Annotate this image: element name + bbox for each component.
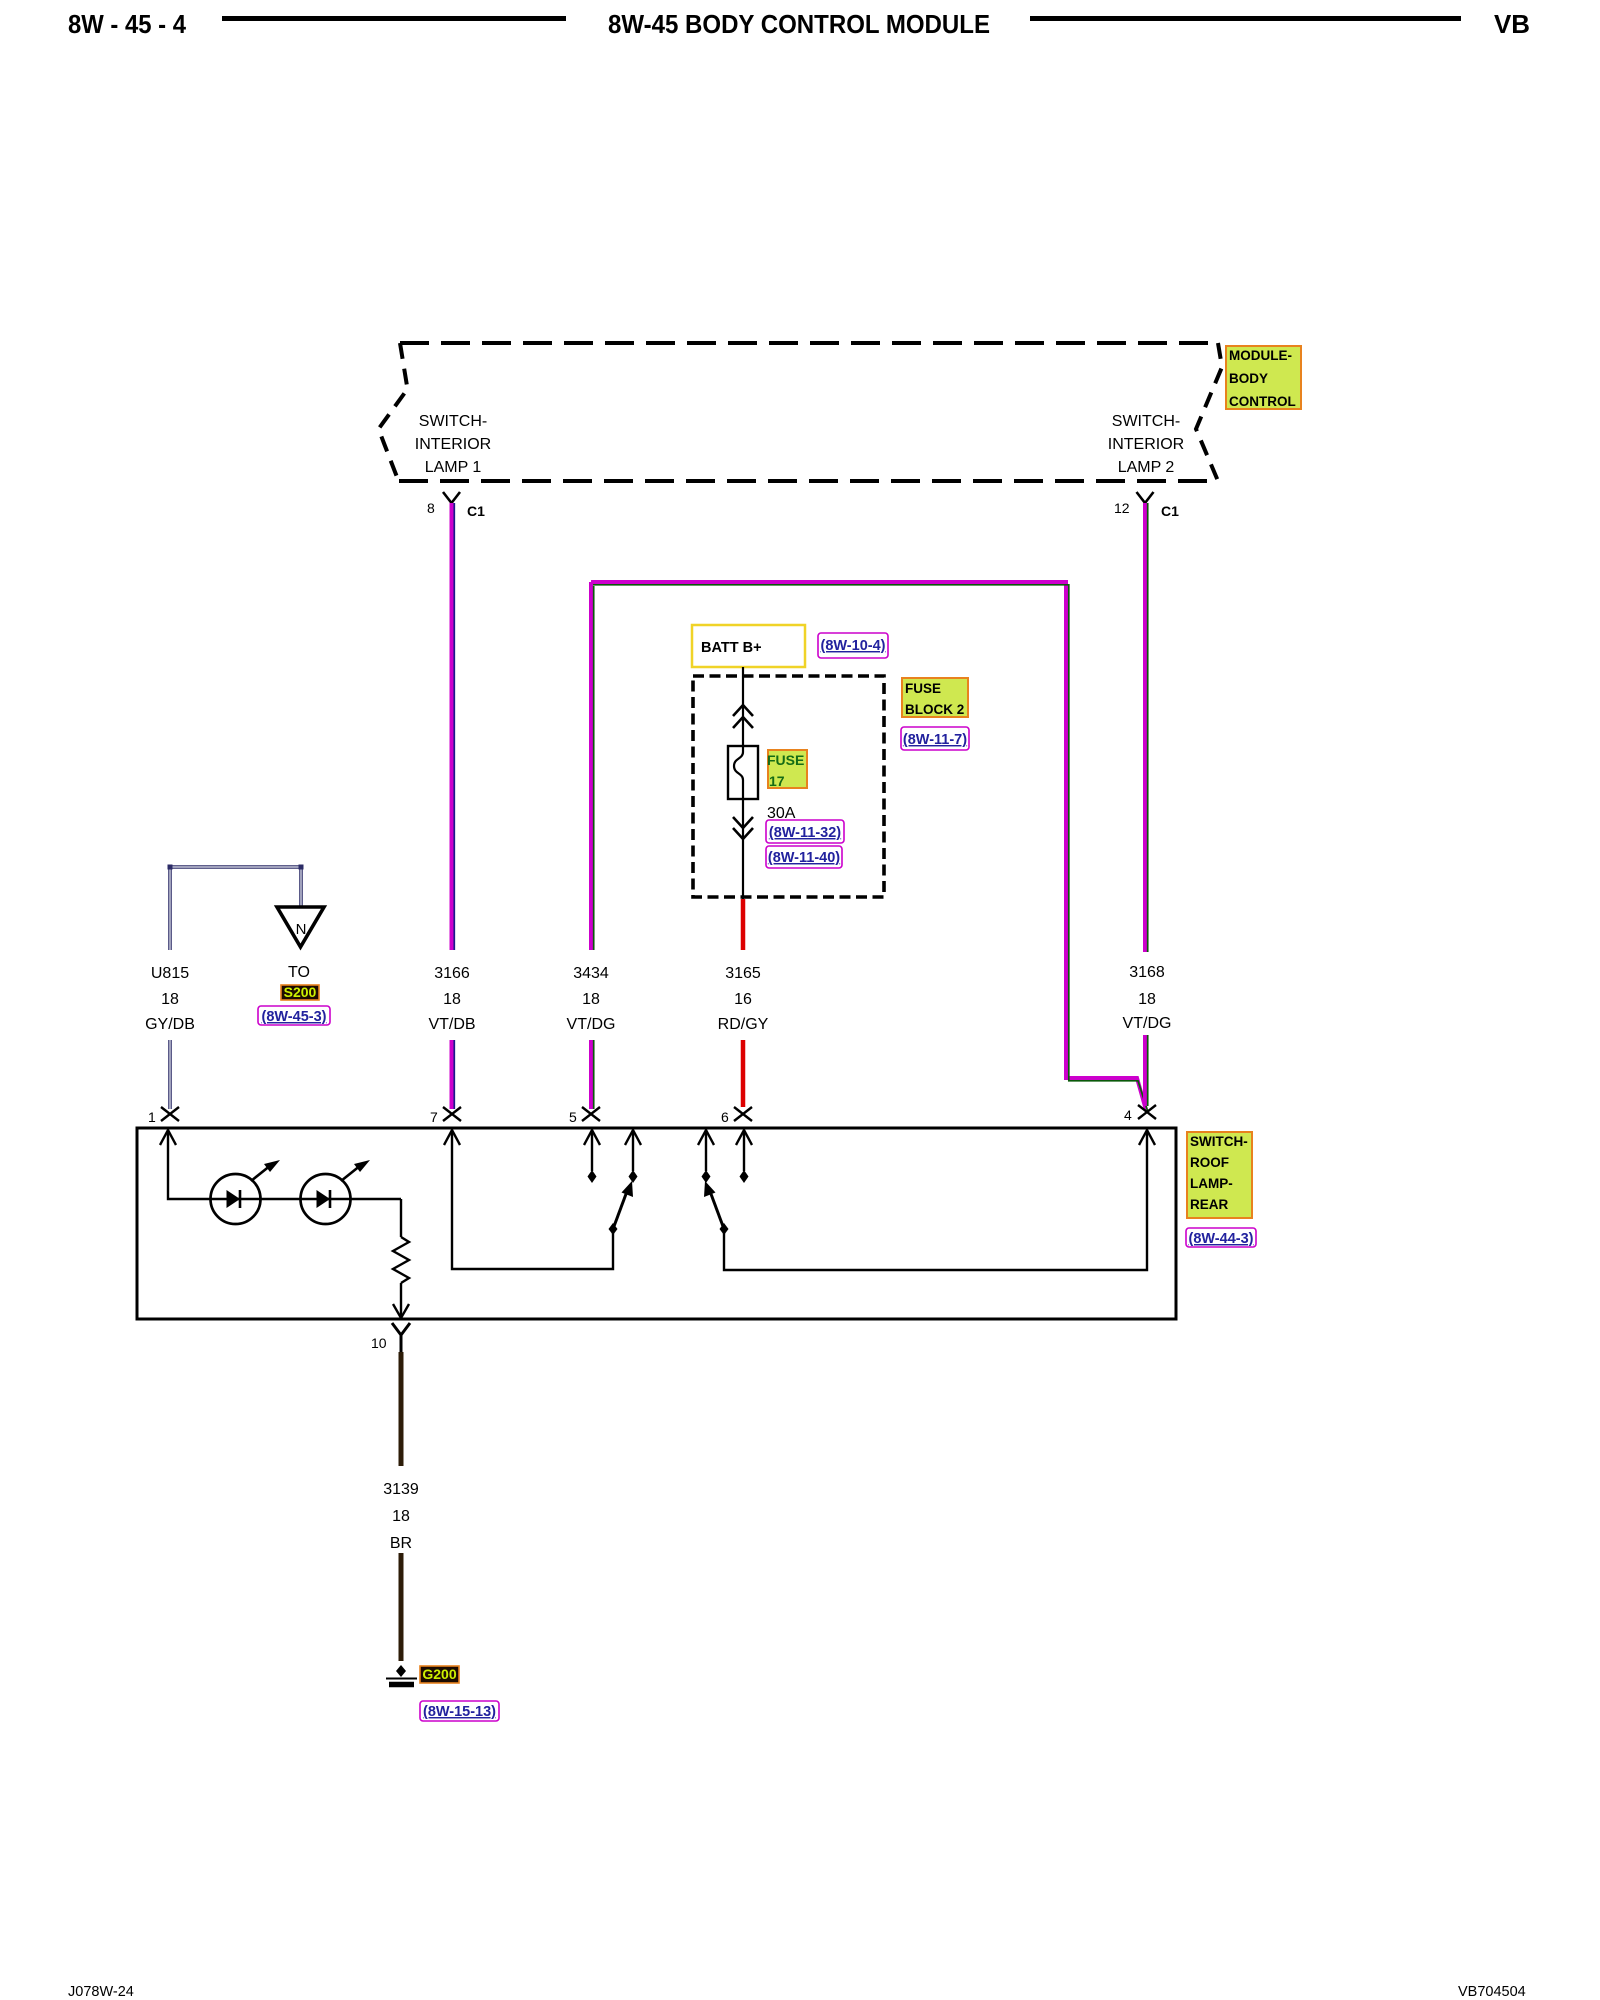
LED D1 <box>211 1174 261 1224</box>
link 8W-45-3 <box>258 1006 330 1025</box>
svg-text:VT/DB: VT/DB <box>428 1016 475 1033</box>
link 8W-11-7 <box>901 727 969 750</box>
svg-text:MODULE-: MODULE- <box>1229 348 1292 363</box>
svg-text:BR: BR <box>390 1535 412 1552</box>
BATT B+ box <box>692 625 805 667</box>
module U1 dashed outline left break <box>379 343 408 481</box>
wire resistor to pin 10 with down arrow <box>400 1283 402 1316</box>
svg-text:18: 18 <box>161 991 179 1008</box>
switch contact stem pin 6 <box>736 1130 752 1145</box>
svg-text:17: 17 <box>769 773 785 789</box>
svg-text:VB: VB <box>1494 9 1530 39</box>
svg-text:TO: TO <box>288 964 310 981</box>
wire 3434 VT/DG upper segment <box>589 582 593 950</box>
svg-text:J078W-24: J078W-24 <box>68 1984 134 2000</box>
svg-text:BATT B+: BATT B+ <box>701 640 762 656</box>
label FUSE BLOCK 2 <box>902 678 968 717</box>
wire 3139 BR lower segment <box>399 1553 404 1661</box>
svg-text:16: 16 <box>734 991 752 1008</box>
svg-text:C1: C1 <box>1161 503 1179 519</box>
svg-text:12: 12 <box>1114 500 1130 516</box>
svg-text:SWITCH-: SWITCH- <box>1112 413 1180 430</box>
svg-text:CONTROL: CONTROL <box>1229 394 1296 409</box>
svg-text:(8W-44-3): (8W-44-3) <box>1189 1231 1254 1247</box>
module U1 body control dashed outline top edge <box>400 341 1218 345</box>
svg-text:(8W-45-3): (8W-45-3) <box>262 1009 327 1025</box>
wire U815 corner junctions <box>168 865 173 870</box>
wire 3168 VT/DG lower segment <box>1143 1035 1147 1106</box>
link 8W-11-40 <box>766 846 842 868</box>
svg-text:VB704504: VB704504 <box>1458 1984 1526 2000</box>
svg-text:1: 1 <box>148 1109 156 1125</box>
svg-text:(8W-15-13): (8W-15-13) <box>423 1704 496 1720</box>
svg-text:3165: 3165 <box>725 965 761 982</box>
svg-text:ROOF: ROOF <box>1190 1155 1229 1170</box>
link 8W-11-32 <box>766 820 844 843</box>
svg-text:(8W-10-4): (8W-10-4) <box>821 638 886 654</box>
svg-text:(8W-11-7): (8W-11-7) <box>903 732 967 748</box>
svg-text:SWITCH-: SWITCH- <box>419 413 487 430</box>
module U1 dashed outline right break <box>1196 343 1222 481</box>
svg-text:8: 8 <box>427 500 435 516</box>
pin 6 connector symbol <box>734 1107 752 1121</box>
internal pin 4 arrow and wire to switch blade 2 <box>1139 1130 1155 1145</box>
svg-text:3434: 3434 <box>573 965 609 982</box>
switch contact stem pin 5 <box>584 1130 600 1145</box>
wire 3166 VT/DB lower segment <box>450 1040 454 1109</box>
svg-text:18: 18 <box>582 991 600 1008</box>
svg-text:BODY: BODY <box>1229 371 1268 386</box>
switch blade 1 <box>609 1223 618 1235</box>
svg-text:REAR: REAR <box>1190 1197 1229 1212</box>
wire 3165 RD/GY upper segment <box>741 899 746 950</box>
svg-text:8W-45 BODY CONTROL MODULE: 8W-45 BODY CONTROL MODULE <box>608 9 990 39</box>
svg-text:INTERIOR: INTERIOR <box>415 436 491 453</box>
wire 3168 VT/DG upper segment <box>1143 503 1147 952</box>
label FUSE 17 <box>768 750 807 788</box>
switch contact stem inner left <box>625 1130 641 1145</box>
ground G200 symbol <box>396 1665 406 1677</box>
connector chevrons below fuse <box>733 817 753 839</box>
svg-text:3139: 3139 <box>383 1481 419 1498</box>
svg-text:GY/DB: GY/DB <box>145 1016 195 1033</box>
wire batt feed into fuse <box>742 667 744 899</box>
link 8W-44-3 <box>1186 1228 1256 1247</box>
link 8W-15-13 <box>420 1701 499 1721</box>
pin 5 connector symbol <box>582 1107 600 1121</box>
svg-text:18: 18 <box>1138 991 1156 1008</box>
connector chevrons above fuse <box>733 705 753 728</box>
pin 4 connector symbol <box>1138 1105 1156 1119</box>
svg-text:10: 10 <box>371 1335 387 1351</box>
svg-text:SWITCH-: SWITCH- <box>1190 1134 1248 1149</box>
svg-text:18: 18 <box>392 1508 410 1525</box>
svg-text:(8W-11-40): (8W-11-40) <box>768 850 840 866</box>
pin 10 connector symbol <box>392 1323 410 1352</box>
svg-text:G200: G200 <box>422 1666 456 1682</box>
internal pin 1 arrow and wire <box>160 1130 176 1145</box>
resistor R1 <box>393 1237 409 1283</box>
svg-text:U815: U815 <box>151 965 189 982</box>
svg-text:RD/GY: RD/GY <box>718 1016 769 1033</box>
svg-text:LAMP 2: LAMP 2 <box>1118 459 1175 476</box>
wire 3165 RD/GY lower segment <box>741 1040 746 1107</box>
wire 3139 BR upper segment <box>399 1352 404 1466</box>
svg-text:(8W-11-32): (8W-11-32) <box>769 825 841 841</box>
pin 7 connector symbol <box>443 1107 461 1121</box>
svg-text:C1: C1 <box>467 503 485 519</box>
connector pin 12 C1 symbol <box>1137 492 1154 503</box>
label MODULE-BODY CONTROL <box>1226 346 1301 409</box>
wire U815 GY/DB <box>170 867 301 1109</box>
svg-text:INTERIOR: INTERIOR <box>1108 436 1184 453</box>
wire 3166 VT/DB upper segment <box>450 503 454 950</box>
svg-text:3168: 3168 <box>1129 964 1165 981</box>
switch blade 2 <box>720 1223 729 1235</box>
svg-text:S200: S200 <box>284 984 317 1000</box>
fuse F17 symbol <box>728 746 758 799</box>
wire interconnect node to pin 4 (VT/DG) <box>591 582 1146 1110</box>
svg-text:LAMP-: LAMP- <box>1190 1176 1233 1191</box>
label G200 <box>420 1666 459 1683</box>
wire 3434 VT/DG lower segment <box>589 1040 593 1109</box>
svg-text:LAMP 1: LAMP 1 <box>425 459 482 476</box>
svg-text:5: 5 <box>569 1109 577 1125</box>
svg-text:BLOCK 2: BLOCK 2 <box>905 702 964 717</box>
switch contact stem inner right <box>698 1130 714 1145</box>
svg-text:VT/DG: VT/DG <box>1123 1015 1172 1032</box>
label SWITCH-ROOF LAMP-REAR <box>1187 1132 1252 1218</box>
svg-text:VT/DG: VT/DG <box>567 1016 616 1033</box>
svg-text:6: 6 <box>721 1109 729 1125</box>
svg-text:N: N <box>296 921 307 938</box>
svg-text:FUSE: FUSE <box>905 681 941 696</box>
pin 1 connector symbol <box>161 1107 179 1121</box>
connector pin 8 C1 symbol <box>443 492 460 503</box>
LED D2 <box>301 1174 351 1224</box>
ground splice triangle N <box>277 907 324 947</box>
header rule left <box>222 16 566 21</box>
svg-text:FUSE: FUSE <box>767 752 804 768</box>
svg-text:8W - 45 - 4: 8W - 45 - 4 <box>68 9 186 39</box>
module U1 dashed outline bottom edge <box>399 479 1219 483</box>
fuse block 2 dashed box <box>693 676 884 897</box>
svg-text:7: 7 <box>430 1109 438 1125</box>
header rule right <box>1030 16 1461 21</box>
switch S1 roof lamp rear box <box>137 1128 1176 1319</box>
svg-text:18: 18 <box>443 991 461 1008</box>
internal pin 7 arrow and wire to switch blade 1 <box>444 1130 460 1145</box>
svg-text:3166: 3166 <box>434 965 470 982</box>
svg-text:4: 4 <box>1124 1107 1132 1123</box>
link 8W-10-4 <box>818 633 888 658</box>
